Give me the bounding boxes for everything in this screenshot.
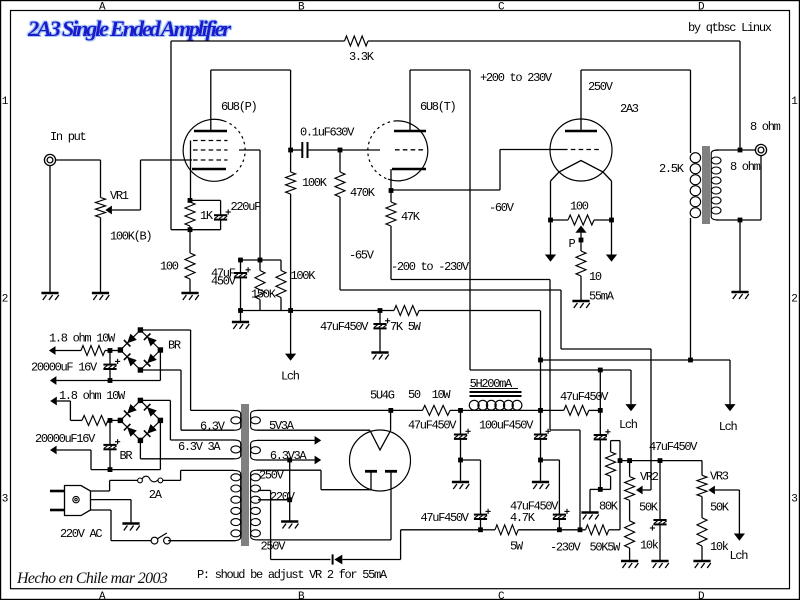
svg-text:250V: 250V	[588, 80, 614, 94]
ground VR1	[92, 293, 109, 300]
label +200 to 230V	[480, 71, 553, 85]
ground B+ left	[232, 322, 249, 329]
terminal arrow filament left	[545, 255, 556, 262]
svg-text:1.8 ohm 10W: 1.8 ohm 10W	[49, 332, 116, 346]
svg-text:2: 2	[2, 294, 8, 306]
node coupling out	[338, 148, 343, 153]
label 100 cathode	[160, 260, 179, 274]
wire switch to primary	[170, 540, 236, 542]
node cap2 bottom	[108, 467, 113, 472]
transformer T1 HV winding	[251, 470, 391, 540]
svg-text:5V3A: 5V3A	[269, 419, 295, 433]
output jack 8 ohm	[755, 144, 766, 155]
note P adjust	[197, 568, 388, 582]
label 20000uF16V	[35, 432, 96, 446]
label 220V	[270, 490, 296, 504]
label 6U8(T)	[420, 100, 456, 114]
input jack J1	[44, 154, 55, 165]
svg-text:-60V: -60V	[489, 201, 515, 215]
wire VR3 wiper to Lch	[738, 490, 740, 534]
svg-text:50K5W: 50K5W	[590, 541, 622, 555]
capacitor 47uF450V bias1	[474, 509, 491, 530]
wire tap A to diode	[271, 559, 331, 561]
transformer T2 output primary lead	[690, 70, 692, 361]
ground VR2	[621, 561, 638, 568]
svg-text:6U8(P): 6U8(P)	[221, 100, 257, 114]
label In put	[50, 130, 86, 144]
label 100 hum	[570, 200, 589, 214]
node bias cap2	[557, 527, 562, 532]
wire CT ground column	[289, 460, 291, 521]
label 250V top	[259, 469, 285, 483]
wire jack ground stem	[49, 166, 51, 293]
svg-text:+200 to 230V: +200 to 230V	[480, 71, 553, 85]
transformer T1 winding 5V3A	[251, 410, 391, 430]
transformer T1 core	[242, 404, 249, 546]
potentiometer VR3	[697, 461, 739, 518]
svg-text:3: 3	[2, 494, 8, 506]
wire B+ rail rect to choke	[391, 409, 601, 411]
svg-text:VR2: VR2	[640, 470, 659, 484]
label 50 10W	[408, 388, 451, 402]
svg-text:Lch: Lch	[719, 420, 738, 434]
label 6.3V	[200, 420, 226, 434]
svg-text:100K(B): 100K(B)	[110, 230, 151, 244]
wire bias row 2	[518, 529, 585, 531]
terminal arrow 6.3V3A bottom	[315, 456, 322, 465]
svg-text:BR: BR	[120, 449, 133, 463]
resistor 7K 5W	[394, 306, 419, 316]
svg-text:-65V: -65V	[349, 249, 375, 263]
wire 601 ground jog	[590, 489, 600, 512]
wire 2A3 plate 250V	[581, 70, 691, 131]
wire bridge2 B route	[139, 440, 141, 458]
label 3.3K	[349, 50, 375, 64]
capacitor 0.1uF630V	[291, 142, 340, 158]
node P	[579, 238, 584, 243]
resistor 100K plate load	[286, 150, 296, 311]
svg-text:20000uF 16V: 20000uF 16V	[31, 361, 98, 375]
label Lch front	[281, 370, 300, 384]
label 47uF450V front	[320, 320, 369, 334]
wire NFB right down	[739, 41, 741, 150]
wire rect cap to bias cap1	[461, 460, 481, 515]
bridge rectifier BR1	[118, 327, 163, 372]
wire 2A3 filament legs	[551, 181, 612, 220]
node rect cap ground	[458, 458, 463, 463]
svg-text:5H200mA: 5H200mA	[470, 377, 513, 391]
ground 10 resistor	[572, 301, 589, 308]
transformer T2 primary coil	[690, 153, 700, 218]
label 5W	[510, 540, 524, 554]
svg-text:8 ohm: 8 ohm	[750, 120, 781, 134]
node -230V	[578, 527, 583, 532]
svg-text:250V: 250V	[259, 469, 285, 483]
wire jack to VR1	[56, 160, 101, 198]
label 1K	[200, 209, 214, 223]
label 10k VR2	[640, 539, 659, 553]
node filament left	[548, 218, 553, 223]
wire bridge2 T route	[140, 400, 170, 440]
label -200 to -230V	[391, 260, 470, 274]
wire HV tap B 220V	[258, 499, 290, 501]
node choke cap ground	[538, 458, 543, 463]
label 100K(B)	[110, 230, 151, 244]
resistor 47K	[386, 202, 396, 280]
wire rect cap ground	[460, 460, 462, 482]
label 55mA	[589, 290, 615, 304]
svg-text:10k: 10k	[710, 540, 729, 554]
svg-text:55mA: 55mA	[589, 290, 615, 304]
wire VR rail	[620, 460, 702, 462]
label 1.8 ohm 10W b	[59, 389, 126, 403]
capacitor 47uF450V rect	[454, 410, 471, 460]
resistor 1.8 ohm 10W b	[82, 415, 120, 425]
label BR2	[120, 449, 133, 463]
svg-text:250V: 250V	[261, 540, 287, 554]
label 47K	[401, 210, 421, 224]
label 4.7K	[510, 511, 536, 525]
label 5H200mA	[470, 377, 513, 391]
svg-text:150K: 150K	[251, 288, 277, 302]
svg-text:8 ohm: 8 ohm	[730, 160, 761, 174]
transformer T1 winding 6.3V 3A	[140, 440, 240, 459]
svg-text:50 10W: 50 10W	[408, 388, 451, 402]
node g2 left	[238, 258, 243, 263]
svg-text:100: 100	[160, 260, 179, 274]
wire g2 top rail	[241, 259, 282, 261]
node rectifier output	[388, 408, 393, 413]
label 6U8(P)	[221, 100, 257, 114]
label 47uF450V bias1	[421, 511, 470, 525]
svg-text:3: 3	[791, 494, 797, 506]
wire 5U4G plate2	[390, 473, 392, 540]
svg-text:VR3: VR3	[710, 470, 729, 484]
tube U1 6U8(P)	[183, 119, 245, 200]
wire front B+ rail	[241, 310, 541, 312]
svg-text:47uF450V: 47uF450V	[320, 320, 369, 334]
ground front B+ cap	[371, 353, 388, 360]
capacitor 20000uF16V b	[103, 420, 120, 469]
label Lch VR3	[730, 549, 749, 563]
node 1K top	[188, 198, 193, 203]
transformer T2 core	[703, 146, 710, 224]
node secondary bottom	[738, 218, 743, 223]
label 250V bottom	[261, 540, 287, 554]
terminal arrow A2	[50, 376, 161, 385]
svg-text:220uF: 220uF	[231, 200, 262, 214]
label Lch 631	[619, 418, 638, 432]
label 20000uF 16V	[31, 361, 98, 375]
note Hecho en Chile mar 2003	[16, 570, 168, 587]
ground secondary	[731, 292, 748, 299]
wire bridge2 minus	[159, 420, 161, 469]
wire 5U4G filament right to rail	[390, 410, 392, 430]
label 5V3A	[269, 419, 295, 433]
node cap2 top	[108, 418, 113, 423]
label 8 ohm top	[750, 120, 781, 134]
wire 50K5W up to VR rail	[609, 461, 620, 530]
resistor 1K	[185, 200, 195, 229]
resistor dropper to 601	[564, 405, 589, 415]
resistor 50 10W	[423, 405, 451, 415]
label 150K	[251, 288, 277, 302]
svg-text:100uF450V: 100uF450V	[479, 419, 534, 433]
svg-text:2A3 Single Ended Amplifier: 2A3 Single Ended Amplifier	[27, 16, 231, 41]
svg-text:Lch: Lch	[730, 549, 749, 563]
wire secondary ground stem	[739, 220, 741, 292]
capacitor 47uF450V bias2	[553, 509, 570, 530]
label 5U4G	[370, 389, 395, 403]
svg-text:220V: 220V	[270, 490, 296, 504]
resistor 1.8 ohm 10W a	[81, 346, 120, 356]
terminal arrow Lch front	[285, 354, 296, 361]
svg-text:100K: 100K	[291, 269, 317, 283]
transformer T1 winding 6.3V	[181, 410, 241, 430]
svg-text:2A3: 2A3	[620, 102, 639, 116]
svg-text:0.1uF630V: 0.1uF630V	[300, 126, 355, 140]
label 8 ohm inner	[730, 160, 761, 174]
svg-text:5U4G: 5U4G	[370, 389, 395, 403]
label 47uF 450V two lines	[211, 267, 237, 289]
svg-text:2A: 2A	[149, 488, 163, 502]
ground rect cap	[452, 482, 469, 489]
label 50K5W	[590, 541, 622, 555]
wire g2 to divider	[239, 150, 260, 260]
terminal arrow 6.3V3A top	[315, 436, 322, 445]
wire bias row 1	[481, 529, 496, 531]
wire B+ spine x540	[540, 311, 542, 411]
label 220V AC	[60, 527, 102, 541]
resistor 470K grid leak	[335, 150, 345, 290]
wire fuse to primary	[163, 470, 181, 480]
plug 220V AC	[50, 486, 91, 516]
node cap1 bottom	[108, 378, 113, 383]
terminal arrow Lch OPT	[724, 404, 735, 411]
wire y370 to Lch arrow	[600, 370, 631, 404]
wire plate 6U8T to +200	[410, 70, 470, 370]
terminal arrow Lch VR3	[734, 534, 745, 541]
capacitor 20000uF 16V a	[103, 351, 120, 381]
svg-text:10: 10	[589, 270, 602, 284]
potentiometer 100 hum	[551, 215, 612, 251]
svg-text:Lch: Lch	[619, 418, 638, 432]
svg-text:by qtbsc Linux: by qtbsc Linux	[688, 21, 772, 35]
label 2A	[149, 488, 163, 502]
resistor 80K	[600, 441, 620, 490]
node 601	[598, 408, 603, 413]
svg-text:BR: BR	[168, 339, 181, 353]
svg-text:2: 2	[791, 294, 797, 306]
wire B+ Lch branch right	[691, 360, 731, 404]
ground jack	[41, 293, 58, 300]
node B+ 100K	[288, 308, 293, 313]
tube V1 2A3	[550, 119, 612, 181]
svg-text:50K: 50K	[710, 501, 730, 515]
svg-text:6.3V 3A: 6.3V 3A	[178, 440, 221, 454]
transformer T2 secondary coil	[711, 150, 721, 220]
capacitor 47uF450V cathode net	[234, 260, 251, 311]
node bias cap1	[478, 527, 483, 532]
tube V2 5U4G	[350, 430, 411, 491]
wire bridge1 B route	[140, 370, 181, 430]
svg-text:80K: 80K	[599, 500, 619, 514]
wire bridge1 T route	[140, 330, 190, 410]
wire secondary top	[716, 149, 755, 151]
node 601 cap bottom	[598, 487, 603, 492]
svg-text:6U8(T): 6U8(T)	[420, 100, 456, 114]
resistor 10k VR3	[697, 518, 707, 561]
node B+ tee 360	[538, 358, 543, 363]
label P	[569, 237, 576, 251]
capacitor 100uF450V	[534, 410, 551, 460]
node VR rail VR2	[627, 458, 632, 463]
ground VR3	[693, 561, 710, 568]
svg-text:VR1: VR1	[110, 189, 129, 203]
svg-text:In put: In put	[50, 130, 86, 144]
svg-text:470K: 470K	[350, 186, 376, 200]
svg-text:47uF450V: 47uF450V	[510, 500, 559, 514]
wire choke cap to bias cap2	[541, 460, 560, 515]
wire filament arrows stems	[551, 220, 612, 255]
label 47uF450V dropper	[560, 390, 609, 404]
svg-text:100K: 100K	[302, 176, 328, 190]
svg-text:P: shoud be adjust VR 2 for 55: P: shoud be adjust VR 2 for 55mA	[197, 568, 388, 582]
svg-text:47uF450V: 47uF450V	[421, 511, 470, 525]
node VR rail cap	[658, 458, 663, 463]
wire cathode 6U8T	[390, 169, 392, 202]
wire choke cap ground	[540, 460, 542, 482]
label 2A3	[620, 102, 639, 116]
label -60V	[489, 201, 515, 215]
wire secondary bottom	[716, 156, 761, 220]
wire plug earth	[91, 500, 132, 523]
svg-text:450V: 450V	[211, 275, 237, 289]
label 10k VR3	[710, 540, 729, 554]
capacitor 47uF450V front B+	[373, 311, 390, 353]
potentiometer VR1	[96, 198, 141, 218]
wire plug to fuse	[91, 480, 138, 491]
wire +200 rail y370	[470, 369, 600, 371]
wire VR1 wiper to grid	[141, 160, 193, 210]
label 80K	[599, 500, 619, 514]
svg-text:3.3K: 3.3K	[349, 50, 375, 64]
terminal arrow Lch 631	[625, 404, 636, 411]
label 250V plate	[588, 80, 614, 94]
wire 47K to -230V line	[391, 280, 580, 530]
label Lch OPT	[719, 420, 738, 434]
resistor 100 cathode	[185, 230, 195, 293]
label 50K VR3	[710, 501, 730, 515]
svg-text:6.3V: 6.3V	[200, 420, 226, 434]
wire 220uF jogs	[171, 200, 221, 229]
resistor 10	[576, 251, 586, 301]
wire B+ left ground stem	[240, 311, 242, 323]
wire 2A3 grid link	[391, 150, 563, 191]
label 6.3V 3A	[178, 440, 221, 454]
node VR rail 80K	[618, 458, 623, 463]
node 1K bottom	[188, 227, 193, 232]
label 7K 5W	[390, 320, 422, 334]
node filament right	[609, 218, 614, 223]
wire NFB top line	[171, 41, 740, 230]
fuse 2A	[138, 476, 163, 483]
terminal arrow A1	[49, 346, 81, 355]
node OPT B+	[688, 358, 693, 363]
resistor 150K	[255, 260, 265, 311]
svg-text:47uF450V: 47uF450V	[560, 390, 609, 404]
svg-text:2.5K: 2.5K	[659, 162, 685, 176]
wire bridge1 minus	[159, 350, 161, 381]
wire plate 6U8P up	[211, 70, 291, 150]
svg-text:Hecho en Chile mar 2003: Hecho en Chile mar 2003	[16, 570, 168, 587]
label 6.3V3A right	[270, 449, 308, 463]
svg-text:7K 5W: 7K 5W	[390, 320, 422, 334]
resistor 50K5W	[586, 525, 609, 535]
wire VR1 bottom to ground	[100, 218, 102, 294]
wire HV tap A	[258, 490, 271, 559]
node y370 tee	[598, 368, 603, 373]
wire plug to switch	[91, 510, 152, 541]
node plate P junction	[288, 148, 293, 153]
wire HV top to 5U4G plate	[321, 470, 371, 490]
bridge rectifier BR2	[118, 398, 163, 443]
resistor 3.3K	[345, 36, 369, 46]
label 470K	[350, 186, 376, 200]
node cap1 top	[108, 348, 113, 353]
wire B+ to OPT	[541, 359, 691, 361]
node CT link	[287, 458, 292, 463]
transformer T1 primary 220V	[168, 470, 241, 540]
svg-text:220V AC: 220V AC	[60, 527, 102, 541]
label 50K VR2	[639, 501, 659, 515]
transformer T1 winding 6.3V3A right	[251, 440, 315, 460]
svg-text:50K: 50K	[639, 501, 659, 515]
svg-text:-230V: -230V	[550, 541, 582, 555]
wire 470K to VR2 wiper	[340, 290, 651, 490]
capacitor 47uF450V VR rail	[650, 461, 667, 561]
resistor 100K g2	[276, 260, 286, 311]
node secondary top	[738, 148, 743, 153]
author text	[688, 21, 772, 35]
svg-text:10k: 10k	[640, 539, 659, 553]
wire diode to bias	[342, 530, 480, 560]
label 100K plate load	[302, 176, 328, 190]
ground mains earth	[122, 524, 139, 531]
label 47uF450V VR rail	[649, 440, 698, 454]
label 10	[589, 270, 602, 284]
svg-text:100: 100	[570, 200, 589, 214]
wire Lch stem front	[290, 311, 292, 355]
ground choke cap	[532, 482, 549, 489]
terminal arrow filament right	[606, 255, 617, 262]
label -230V	[550, 541, 582, 555]
label 100K g2	[291, 269, 317, 283]
svg-text:47K: 47K	[401, 210, 421, 224]
label 220uF	[231, 200, 262, 214]
wire y370 down to node601	[599, 370, 601, 410]
resistor 10k VR2	[625, 521, 635, 561]
ground CT	[281, 522, 298, 529]
capacitor 47uF450V 601	[594, 410, 611, 489]
ground VR rail cap	[651, 561, 668, 568]
potentiometer VR2	[625, 461, 651, 521]
svg-text:-200 to -230V: -200 to -230V	[391, 260, 470, 274]
label 0.1uF630V	[300, 126, 355, 140]
node choke out	[538, 408, 543, 413]
choke 5H200mA	[469, 388, 522, 410]
node g2 top	[258, 258, 263, 263]
